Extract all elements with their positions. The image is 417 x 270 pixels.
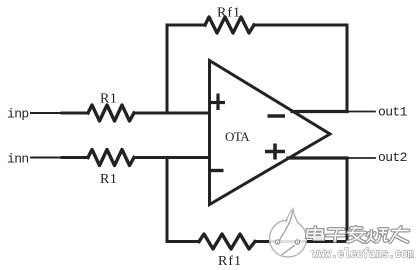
svg-text:R1: R1 [100, 92, 117, 107]
wire bottom feedback right segment [255, 240, 347, 243]
svg-text:inn: inn [7, 152, 29, 167]
wire top feedback right segment [254, 24, 347, 27]
svg-text:Rf1: Rf1 [217, 6, 241, 21]
wire out2 stub to label [347, 157, 375, 159]
wire top feedback left segment [167, 24, 205, 27]
wire inn to op-amp [134, 156, 210, 159]
svg-text:R1: R1 [100, 172, 117, 187]
watermark logo diagonal [282, 245, 296, 255]
svg-text:out2: out2 [378, 150, 407, 165]
resistor R1 (top) [88, 105, 134, 121]
resistor Rf1 (top) [205, 17, 254, 33]
op-amp - output mark [268, 114, 286, 118]
op-amp + input mark [211, 94, 225, 111]
wire inn input [31, 157, 62, 159]
resistor R1 (bottom) [88, 150, 134, 166]
wire out1 stub to label [347, 111, 375, 113]
watermark logo node right [295, 240, 299, 244]
watermark logo circle [270, 209, 307, 258]
wire out2 [288, 156, 347, 159]
svg-text:out1: out1 [378, 105, 408, 120]
wire left vertical upper (Rf1 top to inp node) [166, 25, 169, 113]
op-amp U1 (OTA) triangle [210, 61, 331, 205]
wire right vertical upper (top to out1) [346, 25, 349, 112]
wire inp to op-amp [134, 112, 210, 115]
resistor Rf1 (bottom) [199, 234, 255, 249]
wire left vertical lower (inn node to Rf1 bottom) [166, 158, 169, 242]
watermark logo beak [286, 209, 298, 223]
wire right vertical lower (out2 to bottom) [346, 158, 349, 242]
svg-text:inp: inp [7, 107, 29, 122]
watermark logo node left [275, 240, 279, 244]
svg-text:www.elecfans.com: www.elecfans.com [312, 247, 414, 262]
watermark logo curve [280, 211, 293, 240]
op-amp + output mark [265, 144, 285, 160]
wire inp input [31, 112, 62, 114]
svg-text:OTA: OTA [225, 129, 250, 144]
watermark text chinese [306, 227, 409, 242]
svg-text:Rf1: Rf1 [218, 254, 242, 269]
wire out1 [292, 110, 347, 113]
op-amp - input mark [210, 169, 224, 172]
wire bottom feedback left segment [167, 240, 199, 243]
